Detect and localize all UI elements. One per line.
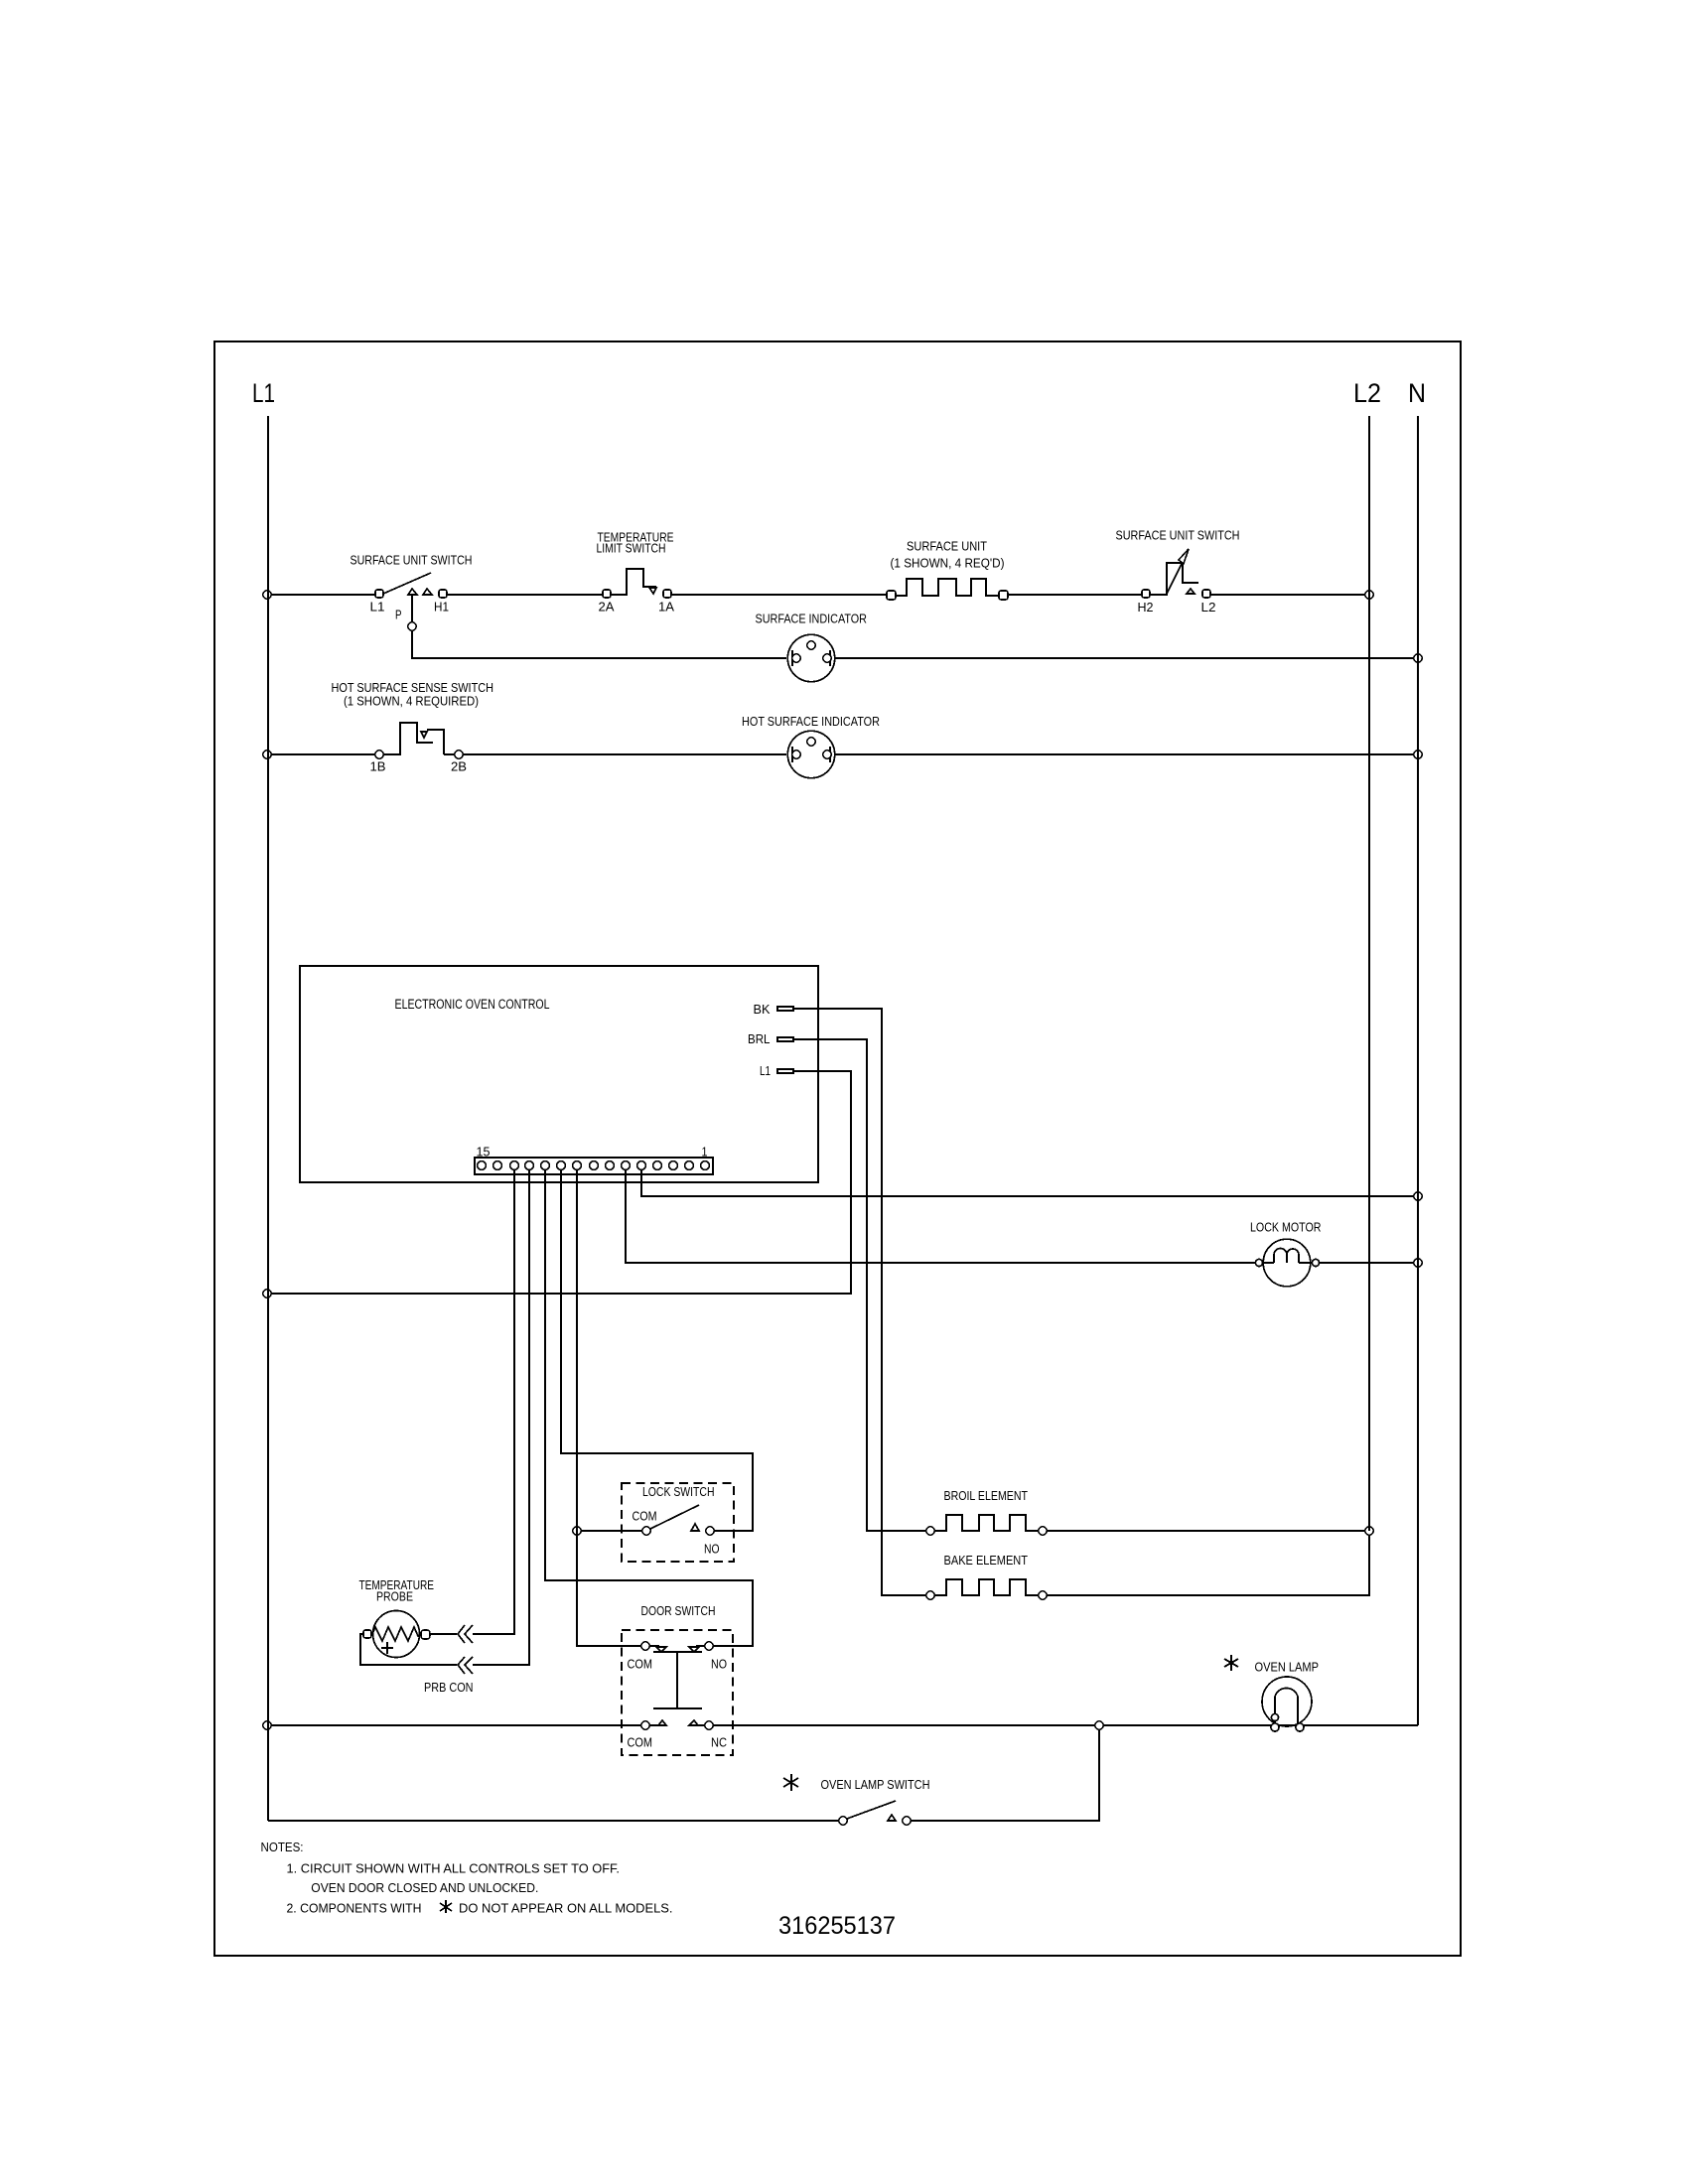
svg-text:H2: H2	[1138, 600, 1154, 614]
svg-text:(1 SHOWN, 4 REQUIRED): (1 SHOWN, 4 REQUIRED)	[344, 693, 479, 708]
S4 blade	[650, 1505, 699, 1529]
svg-text:L2: L2	[1353, 378, 1381, 408]
RT1 plus mark	[381, 1642, 393, 1654]
svg-text:DOOR SWITCH: DOOR SWITCH	[641, 1603, 716, 1618]
TLS body	[612, 569, 656, 595]
wire pin5 down to N bus	[641, 1169, 1413, 1196]
wire bake element up to broil row junction	[1047, 1535, 1369, 1595]
DS3 left terminal	[1271, 1723, 1279, 1731]
svg-text:H1: H1	[434, 600, 449, 614]
svg-text:L1: L1	[760, 1063, 771, 1078]
J1 pin8	[590, 1161, 599, 1170]
wire hot surface indicator to N bus	[834, 753, 1413, 755]
junction L1 bus / top rung	[263, 591, 271, 599]
broil element R2	[926, 1515, 1047, 1535]
J1 pin15	[478, 1161, 487, 1170]
J1 pin2	[685, 1161, 694, 1170]
junction L1 bus / EOC L1 row	[263, 1290, 271, 1297]
svg-text:LIMIT SWITCH: LIMIT SWITCH	[597, 541, 666, 556]
hot surface sense switch S3	[375, 723, 463, 758]
bake element R3	[926, 1579, 1047, 1599]
svg-text:SURFACE UNIT SWITCH: SURFACE UNIT SWITCH	[1116, 528, 1240, 543]
M1 left terminal	[1255, 1259, 1262, 1266]
svg-text:PROBE: PROBE	[376, 1589, 413, 1604]
wire oven lamp switch to junction riser	[911, 1729, 1099, 1821]
J1 pin5	[637, 1161, 646, 1170]
M1 right terminal	[1312, 1259, 1319, 1266]
S4 COM terminal	[642, 1527, 650, 1535]
S4 NO terminal	[706, 1527, 714, 1535]
R3 left terminal	[926, 1591, 934, 1599]
svg-text:LOCK SWITCH: LOCK SWITCH	[642, 1484, 715, 1499]
temperature probe RT1	[363, 1611, 430, 1658]
BK stub pin	[777, 1007, 793, 1011]
S5 actuator bar	[653, 1652, 702, 1708]
svg-text:2. COMPONENTS WITH: 2. COMPONENTS WITH	[287, 1901, 422, 1916]
svg-text:LOCK MOTOR: LOCK MOTOR	[1250, 1220, 1322, 1235]
lock motor M1	[1255, 1239, 1319, 1287]
svg-text:2B: 2B	[451, 759, 467, 774]
junction pin9 wire / lock switch COM row	[573, 1527, 581, 1535]
DS3 right terminal	[1296, 1723, 1304, 1731]
svg-text:N: N	[1408, 378, 1426, 408]
terminal left of R1	[887, 591, 896, 600]
J1 pin7	[606, 1161, 615, 1170]
S6 contact triangle	[888, 1815, 896, 1821]
J1 pin10	[557, 1161, 566, 1170]
S3 contact triangle	[421, 732, 427, 738]
S5 lower contact triangle right	[689, 1720, 698, 1725]
junction N bus / hot surface row	[1414, 751, 1422, 758]
junction N bus / lock motor row	[1414, 1259, 1422, 1267]
M1 internal wire	[1262, 1262, 1312, 1264]
wire H1 to temperature limit switch 2A	[447, 594, 603, 596]
wire 1A to surface unit element	[671, 594, 887, 596]
J1 pin11	[541, 1161, 550, 1170]
svg-text:NOTES:: NOTES:	[261, 1840, 304, 1854]
svg-text:SURFACE UNIT SWITCH: SURFACE UNIT SWITCH	[351, 553, 473, 568]
terminal 2B	[455, 751, 463, 758]
DS1 right tick	[829, 650, 831, 666]
wire pin6 down to lock motor	[626, 1169, 1255, 1263]
DS2 outline circle	[787, 731, 834, 777]
svg-text:OVEN LAMP SWITCH: OVEN LAMP SWITCH	[821, 1777, 930, 1792]
J1 pin1	[701, 1161, 710, 1170]
junction L2 bus / top rung	[1365, 591, 1373, 599]
svg-text:DO NOT APPEAR ON ALL MODELS.: DO NOT APPEAR ON ALL MODELS.	[459, 1901, 673, 1916]
wire L2 bus vertical	[1368, 416, 1370, 1531]
svg-text:2A: 2A	[599, 600, 615, 614]
RT1 right terminal	[421, 1630, 430, 1639]
wire L1 output down and across to L1 bus	[271, 1071, 851, 1294]
R3 square-wave body	[935, 1579, 1039, 1595]
svg-text:L1: L1	[252, 378, 275, 408]
lock switch dashed box	[622, 1483, 734, 1562]
S5 upper NO terminal	[705, 1642, 713, 1650]
junction N bus / surface indicator row	[1414, 654, 1422, 662]
terminal H2	[1142, 590, 1150, 598]
wire N bus vertical	[1417, 416, 1419, 1725]
DS3 outline circle	[1262, 1677, 1312, 1726]
M1 winding m symbol	[1274, 1249, 1299, 1264]
wire BRL output to broil element	[793, 1039, 926, 1531]
svg-text:1B: 1B	[370, 759, 386, 774]
svg-text:SURFACE UNIT: SURFACE UNIT	[907, 539, 987, 554]
wire lock switch COM row	[582, 1530, 642, 1532]
door switch dashed box	[622, 1630, 733, 1755]
svg-text:BRL: BRL	[748, 1031, 771, 1046]
svg-text:COM: COM	[628, 1657, 653, 1672]
DS1 left pin circle	[792, 654, 800, 662]
S1 contact triangle left	[408, 589, 417, 595]
terminal 1B	[375, 751, 383, 758]
R2 right terminal	[1039, 1527, 1047, 1535]
DS2 right tick	[829, 747, 831, 762]
EOC terminal strip connector J1	[475, 1158, 713, 1174]
asterisk for oven lamp switch	[783, 1774, 798, 1791]
S5 upper contact triangle left	[656, 1647, 666, 1652]
S2 body bridge	[1151, 563, 1198, 595]
wire pin13 down to probe upper chevron	[473, 1169, 514, 1634]
DS1 right pin circle	[823, 654, 831, 662]
S2 contact triangle	[1187, 589, 1195, 594]
S6 right terminal	[903, 1817, 911, 1825]
svg-text:1. CIRCUIT SHOWN WITH ALL CON: 1. CIRCUIT SHOWN WITH ALL CONTROLS SET T…	[287, 1861, 621, 1876]
svg-text:P: P	[395, 608, 402, 622]
svg-text:316255137: 316255137	[778, 1913, 896, 1940]
svg-text:1A: 1A	[658, 600, 674, 614]
S5 lower wire between terminals	[649, 1724, 705, 1726]
junction oven lamp switch branch	[1095, 1721, 1103, 1729]
J1 pin13	[510, 1161, 519, 1170]
surface unit switch S1	[375, 573, 447, 598]
surface indicator lamp DS1	[787, 634, 834, 681]
wire 2B stub	[444, 753, 455, 755]
door switch S5 lower pole	[641, 1720, 713, 1729]
note 2 asterisk	[440, 1900, 452, 1913]
R2 left terminal	[926, 1527, 934, 1535]
junction L1 bus / door switch row	[263, 1721, 271, 1729]
surface unit heating element R1	[887, 579, 1008, 600]
R1 square-wave element body	[896, 579, 999, 596]
wire door switch NC to oven lamp junction	[713, 1724, 1094, 1726]
DS2 right pin circle	[823, 751, 831, 758]
RT1 left terminal square	[363, 1630, 371, 1638]
wire pin11 down to door switch NO	[545, 1169, 753, 1646]
DS2 top pin circle	[807, 738, 815, 746]
RT1 outline circle	[373, 1611, 420, 1658]
hot surface indicator lamp DS2	[787, 731, 834, 777]
DS1 left tick	[791, 650, 793, 666]
terminal 1A	[663, 590, 671, 598]
S4 contact triangle	[691, 1524, 699, 1531]
svg-text:COM: COM	[633, 1508, 657, 1523]
J1 pin12	[525, 1161, 534, 1170]
svg-text:BROIL ELEMENT: BROIL ELEMENT	[944, 1488, 1029, 1503]
J1 pin14	[493, 1161, 502, 1170]
DS3 small circle on left leg	[1271, 1713, 1278, 1720]
S1 blade	[383, 573, 431, 594]
wire pin9 down to door switch COM	[577, 1169, 641, 1646]
S6 blade	[847, 1801, 896, 1819]
oven lamp DS3	[1262, 1677, 1312, 1731]
svg-text:OVEN DOOR CLOSED AND UNLOCKED.: OVEN DOOR CLOSED AND UNLOCKED.	[311, 1880, 538, 1895]
DS2 left pin circle	[792, 751, 800, 758]
S5 lower NC terminal	[705, 1721, 713, 1729]
svg-text:NO: NO	[704, 1542, 720, 1557]
S1 contact triangle right	[423, 589, 432, 595]
chevron connector upper PRB	[458, 1625, 473, 1643]
wire P drop from S1	[411, 595, 413, 622]
svg-text:COM: COM	[628, 1734, 653, 1749]
svg-text:HOT SURFACE INDICATOR: HOT SURFACE INDICATOR	[742, 714, 880, 729]
terminal L1 of S1	[375, 590, 383, 598]
svg-text:NC: NC	[711, 1734, 727, 1749]
J1 pin4	[653, 1161, 662, 1170]
terminal L2 of S2	[1202, 590, 1210, 598]
wire S2 to L2 bus	[1211, 594, 1365, 596]
S6 left terminal	[839, 1817, 847, 1825]
DS1 outline circle	[787, 634, 834, 681]
DS2 left tick	[791, 747, 793, 762]
junction L2 bus / broil row	[1365, 1527, 1373, 1535]
S3 left bridge body	[383, 723, 433, 754]
J1 pin3	[669, 1161, 678, 1170]
terminal H1 of S1	[439, 590, 447, 598]
svg-text:L1: L1	[370, 600, 385, 614]
wire L1 bus vertical	[267, 416, 269, 1821]
wire BK output to bake element	[793, 1009, 926, 1595]
RT1 zigzag resistor	[372, 1627, 421, 1641]
door switch S5 upper pole	[641, 1642, 713, 1652]
temperature limit switch TLS	[603, 569, 671, 598]
S5 upper wire between terminals	[649, 1645, 705, 1647]
oven lamp switch S6	[839, 1801, 911, 1825]
svg-text:OVEN LAMP: OVEN LAMP	[1255, 1659, 1320, 1674]
wire lock motor to N bus	[1319, 1262, 1413, 1264]
electronic oven control box U1	[300, 966, 818, 1182]
asterisk for oven lamp	[1224, 1655, 1238, 1671]
svg-text:BK: BK	[754, 1002, 771, 1017]
chevron connector lower PRB	[458, 1657, 473, 1674]
S5 upper contact triangle right	[689, 1647, 699, 1652]
S3 right step body	[427, 730, 444, 754]
S2 blade arrowhead	[1179, 549, 1189, 564]
R3 right terminal	[1039, 1591, 1047, 1599]
J1 pin9	[573, 1161, 582, 1170]
DS1 top pin circle	[807, 641, 815, 649]
wire L1 bus bottom to oven lamp switch	[268, 1820, 839, 1822]
svg-text:SURFACE INDICATOR: SURFACE INDICATOR	[756, 611, 868, 625]
wire R1 to surface unit switch S2 terminal H2	[1008, 594, 1142, 596]
svg-text:BAKE ELEMENT: BAKE ELEMENT	[944, 1553, 1029, 1568]
S5 upper COM terminal	[641, 1642, 649, 1650]
svg-text:PRB CON: PRB CON	[424, 1680, 474, 1695]
junction N bus / pin5 row	[1414, 1192, 1422, 1200]
L1 stub pin	[777, 1069, 793, 1073]
R2 square-wave body	[935, 1515, 1039, 1531]
wire broil element to L2 bus	[1047, 1530, 1365, 1532]
wire L1 bus to sense switch 1B	[271, 753, 375, 755]
node P junction circle	[408, 622, 416, 630]
terminal right of R1	[999, 591, 1008, 600]
terminal 2A	[603, 590, 611, 598]
M1 outline circle	[1263, 1239, 1311, 1287]
S5 lower contact triangle left	[658, 1720, 666, 1725]
wire pin12 down to probe lower chevron	[473, 1169, 529, 1665]
TLS contact triangle	[649, 588, 656, 594]
svg-text:NO: NO	[711, 1657, 727, 1672]
svg-text:(1 SHOWN, 4 REQ'D): (1 SHOWN, 4 REQ'D)	[891, 556, 1005, 571]
svg-text:L2: L2	[1201, 600, 1216, 614]
lock switch S4	[642, 1505, 714, 1535]
BRL stub pin	[777, 1037, 793, 1041]
DS3 filament loop	[1275, 1688, 1298, 1725]
J1 pin6	[622, 1161, 631, 1170]
S2 blade diagonal	[1167, 554, 1187, 594]
surface unit switch S2	[1142, 549, 1210, 598]
S5 lower COM terminal	[641, 1721, 649, 1729]
wire top rung: L1 bus to surface unit switch terminal L1	[271, 594, 375, 596]
svg-text:ELECTRONIC OVEN CONTROL: ELECTRONIC OVEN CONTROL	[395, 997, 550, 1012]
wire junction to oven lamp and N bus corner	[1103, 1724, 1418, 1726]
wire probe right terminal to chevron	[429, 1633, 457, 1635]
wire surface indicator to N bus	[834, 657, 1413, 659]
wire probe left terminal jog to lower chevron	[360, 1634, 457, 1665]
wire pin10 down to lock switch NO	[561, 1169, 753, 1531]
wire P to surface indicator row	[412, 631, 786, 658]
wire L1 bus to door switch lower COM	[271, 1724, 641, 1726]
wire 2B to hot surface indicator	[463, 753, 786, 755]
junction L1 bus / hot surface row	[263, 751, 271, 758]
